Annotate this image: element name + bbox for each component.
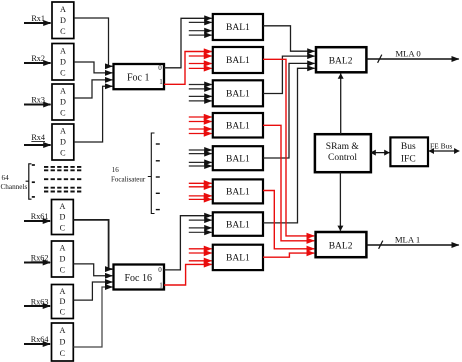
block Foc1 bbox=[114, 64, 165, 89]
svg-text:0: 0 bbox=[158, 266, 162, 274]
wire SRam to BAL2 bottom (control, arrow down) bbox=[339, 172, 341, 231]
block ADC4 bbox=[52, 124, 74, 160]
stub arrows into BAL1-1 bbox=[189, 22, 212, 35]
svg-text:BAL1: BAL1 bbox=[226, 90, 250, 100]
svg-text:Rx4: Rx4 bbox=[31, 133, 45, 142]
svg-text:BAL1: BAL1 bbox=[226, 121, 250, 131]
svg-text:A: A bbox=[59, 244, 65, 253]
svg-text:D: D bbox=[59, 297, 65, 306]
svg-text:C: C bbox=[60, 266, 66, 275]
svg-text:Control: Control bbox=[328, 153, 357, 163]
svg-text:C: C bbox=[60, 149, 66, 158]
ellipsis dashes focal group bbox=[156, 144, 160, 210]
svg-text:BAL1: BAL1 bbox=[226, 220, 250, 230]
wire Rx64 input arrow bbox=[24, 343, 50, 345]
wire Rx2 input arrow bbox=[24, 62, 51, 64]
svg-text:D: D bbox=[60, 57, 66, 66]
wire Foc1 out1 to BAL1-2 (red) bbox=[164, 52, 212, 85]
svg-text:BAL1: BAL1 bbox=[226, 254, 250, 264]
wire ADC61 to Foc16 in1 bbox=[73, 220, 112, 269]
svg-text:Rx62: Rx62 bbox=[31, 253, 49, 262]
block ADC2 bbox=[52, 44, 74, 81]
wire Foc16 out0 to BAL1-7 bbox=[164, 216, 212, 270]
svg-text:Rx61: Rx61 bbox=[31, 212, 49, 221]
wire BAL1-5 to BAL2top in3 bbox=[263, 63, 315, 158]
svg-text:BAL1: BAL1 bbox=[226, 23, 250, 33]
svg-text:D: D bbox=[60, 16, 66, 25]
svg-text:C: C bbox=[60, 308, 66, 317]
svg-text:IFC: IFC bbox=[401, 155, 416, 165]
svg-text:C: C bbox=[60, 68, 66, 77]
svg-text:Bus: Bus bbox=[401, 142, 416, 152]
stub arrows into BAL1-8 (red) bbox=[189, 249, 212, 261]
wire BAL1-3 to BAL2top in2 bbox=[263, 56, 315, 93]
block BAL2 top bbox=[316, 47, 366, 72]
svg-text:A: A bbox=[60, 5, 66, 14]
svg-text:A: A bbox=[59, 202, 65, 211]
wire Foc1 out0 to BAL1-1 bbox=[164, 18, 212, 68]
svg-text:Rx2: Rx2 bbox=[31, 54, 45, 63]
block ADC61 bbox=[52, 200, 74, 235]
bracket 16 Focalisateur bbox=[148, 133, 155, 214]
block ADC3 bbox=[52, 84, 74, 120]
wire Rx3 input arrow bbox=[24, 104, 51, 106]
svg-text:Foc 1: Foc 1 bbox=[127, 72, 150, 83]
wire ADC2 to Foc1 in2 bbox=[74, 62, 112, 73]
svg-text:BAL2: BAL2 bbox=[329, 241, 353, 251]
brace 64 Channels bbox=[26, 164, 32, 199]
wire BAL1-7 to BAL2top in4 bbox=[263, 68, 315, 223]
svg-text:64: 64 bbox=[2, 174, 10, 182]
svg-text:MLA 0: MLA 0 bbox=[395, 49, 421, 59]
block BAL1-6 bbox=[213, 179, 263, 203]
wire ADC64 to Foc16 in4 bbox=[73, 287, 112, 347]
svg-text:Foc 16: Foc 16 bbox=[124, 273, 152, 284]
svg-text:A: A bbox=[59, 326, 65, 335]
wire Rx61 input arrow bbox=[24, 220, 50, 222]
svg-text:0: 0 bbox=[158, 64, 162, 72]
wire Foc16 out1 to BAL1-8 (red) bbox=[164, 264, 212, 285]
wire SRam-BusIFC double arrow bbox=[371, 152, 390, 154]
svg-text:BAL1: BAL1 bbox=[226, 188, 250, 198]
stub arrows into BAL1-3 bbox=[189, 85, 212, 101]
svg-text:MLA 1: MLA 1 bbox=[395, 235, 420, 245]
svg-text:BAL1: BAL1 bbox=[226, 56, 250, 66]
svg-text:D: D bbox=[59, 338, 65, 347]
stub arrows into BAL1-6 (red) bbox=[189, 183, 212, 199]
wire SRam to BAL2 top (control, arrow up) bbox=[340, 74, 342, 134]
block SRam & Control bbox=[315, 134, 371, 172]
svg-text:A: A bbox=[60, 127, 66, 136]
svg-text:Rx64: Rx64 bbox=[31, 335, 49, 344]
block BAL2 bottom bbox=[316, 232, 367, 257]
wire ADC62 to Foc16 in2 bbox=[73, 264, 112, 276]
stub arrows into BAL1-5 bbox=[189, 150, 212, 166]
wire Rx62 input arrow bbox=[24, 262, 50, 264]
wire FE Bus double arrow bbox=[429, 150, 460, 152]
svg-text:Rx63: Rx63 bbox=[31, 298, 49, 307]
svg-text:D: D bbox=[59, 213, 65, 222]
wire ADC4 to Foc1 in4 bbox=[74, 86, 112, 142]
svg-text:1: 1 bbox=[159, 281, 163, 289]
svg-text:1: 1 bbox=[159, 78, 163, 86]
block ADC1 bbox=[52, 2, 74, 39]
block BAL1-8 bbox=[213, 245, 263, 270]
wire BAL1-8 to BAL2bot in4 (red) bbox=[263, 253, 314, 257]
svg-text:D: D bbox=[60, 98, 66, 107]
stub arrows into BAL1-4 (red) bbox=[189, 117, 212, 134]
svg-text:BAL2: BAL2 bbox=[329, 57, 353, 67]
svg-text:Focalisateur: Focalisateur bbox=[111, 176, 146, 184]
svg-text:D: D bbox=[59, 255, 65, 264]
bus-width slash MLA1 bbox=[379, 241, 383, 249]
svg-text:16: 16 bbox=[112, 166, 120, 174]
bus-width slash MLA0 bbox=[378, 55, 382, 63]
block BAL1-5 bbox=[213, 146, 263, 170]
svg-text:Rx1: Rx1 bbox=[31, 14, 45, 23]
block Foc16 bbox=[114, 265, 165, 290]
channel-group dashes at brace bbox=[32, 165, 35, 197]
wire BAL1-1 to BAL2top in1 bbox=[263, 26, 315, 51]
block BAL1-2 bbox=[213, 47, 263, 73]
block ADC63 bbox=[52, 285, 74, 319]
svg-text:A: A bbox=[59, 287, 65, 296]
wire BAL1-6 to BAL2bot in3 (red) bbox=[263, 191, 314, 249]
block BAL1-7 bbox=[213, 212, 263, 236]
wire ADC1 to Foc1 in1 bbox=[74, 18, 112, 66]
svg-text:D: D bbox=[60, 138, 66, 147]
stub arrows into BAL1-7 bbox=[189, 220, 212, 232]
block ADC62 bbox=[52, 241, 74, 277]
block BAL1-4 bbox=[213, 113, 263, 138]
svg-text:FE Bus: FE Bus bbox=[430, 142, 452, 151]
wire Rx63 input arrow bbox=[24, 305, 50, 307]
wire ADC3 to Foc1 in3 bbox=[74, 80, 112, 98]
svg-text:BAL1: BAL1 bbox=[226, 154, 250, 164]
svg-text:SRam &: SRam & bbox=[326, 142, 360, 152]
wire BAL1-4 to BAL2bot in1 (red) bbox=[263, 125, 314, 241]
wire MLA1 output bbox=[366, 244, 458, 246]
svg-text:C: C bbox=[60, 349, 66, 358]
wire Rx4 input arrow bbox=[24, 144, 51, 146]
svg-text:C: C bbox=[60, 27, 66, 36]
wire MLA0 output bbox=[366, 58, 458, 60]
svg-text:Channels: Channels bbox=[1, 183, 28, 191]
svg-text:C: C bbox=[60, 223, 66, 232]
wire BAL1-2 to BAL2bot in2 (red) bbox=[263, 59, 314, 236]
wire ADC63 to Foc16 in3 bbox=[73, 282, 112, 300]
block ADC64 bbox=[52, 323, 74, 361]
dashed channel lines bbox=[44, 167, 82, 192]
block Bus IFC bbox=[390, 137, 428, 166]
svg-text:A: A bbox=[60, 46, 66, 55]
svg-text:C: C bbox=[60, 109, 66, 118]
svg-text:Rx3: Rx3 bbox=[31, 96, 45, 105]
stub arrows into BAL1-2 (red) bbox=[189, 56, 212, 68]
block BAL1-3 bbox=[213, 80, 263, 106]
wire Rx1 input arrow bbox=[24, 22, 51, 24]
block BAL1-1 bbox=[213, 14, 263, 40]
svg-text:A: A bbox=[60, 87, 66, 96]
